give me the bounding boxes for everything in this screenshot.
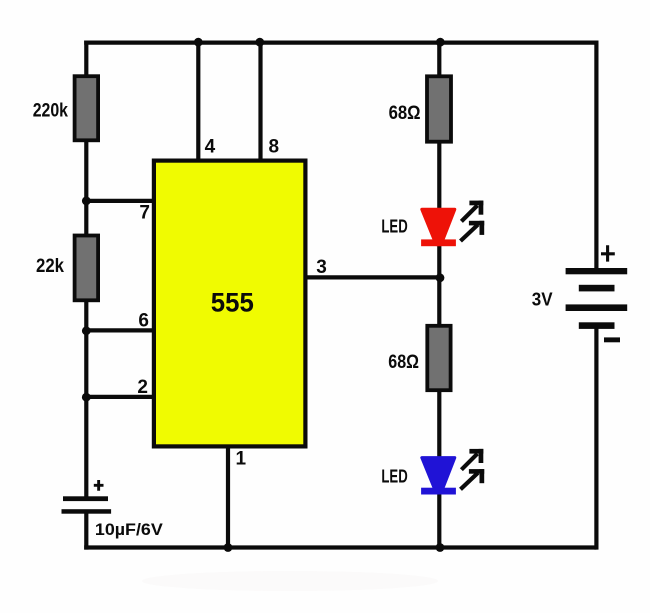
svg-text:LED: LED (381, 216, 407, 236)
wire pin2 stub (84, 395, 153, 399)
resistor R2 22k body (36, 236, 98, 301)
wire left rail upper (84, 41, 88, 77)
wire pin4 drop (196, 41, 200, 161)
LED D2 arrows (461, 449, 485, 489)
LED D2 blue (381, 458, 456, 495)
svg-text:8: 8 (269, 136, 280, 157)
node LED2-bottom junction (436, 543, 445, 552)
battery BT1 3V (532, 245, 627, 342)
svg-text:68Ω: 68Ω (389, 103, 421, 124)
wire red LED to R4 (437, 245, 441, 325)
resistor R3 68ohm top body (389, 76, 451, 141)
svg-text:555: 555 (211, 288, 254, 318)
resistor R4 68ohm bottom body (388, 326, 450, 390)
wire top rail (84, 40, 598, 44)
svg-text:LED: LED (381, 466, 407, 486)
node pin3-LED junction (436, 273, 445, 282)
capacitor C1 10uF/6V (62, 480, 164, 539)
wire bottom rail (84, 545, 596, 549)
node pin6 junction (82, 326, 91, 335)
wire right rail lower (594, 329, 598, 550)
node pin2 junction (82, 393, 91, 402)
svg-text:10µF/6V: 10µF/6V (95, 520, 164, 539)
node pin1-bottom junction (224, 543, 233, 552)
op-amp U1 555 timer body (154, 161, 306, 447)
wire pin8 drop (258, 41, 262, 161)
svg-text:4: 4 (205, 136, 216, 157)
svg-text:7: 7 (139, 203, 150, 224)
svg-text:3: 3 (316, 257, 327, 278)
svg-text:1: 1 (236, 449, 247, 470)
wire pin6 stub (84, 328, 153, 332)
wire right rail upper (594, 41, 598, 269)
wire R4 to blue LED (437, 391, 441, 458)
wire pin7 stub (84, 199, 153, 203)
node pin7 junction (82, 197, 91, 206)
wire left rail R1-R2 (84, 141, 88, 235)
wire pin1 drop (226, 447, 230, 550)
svg-text:22k: 22k (36, 256, 64, 277)
node top-pin8 (255, 38, 264, 47)
wire pin3 stub (306, 275, 439, 279)
wire LED column top (437, 41, 441, 77)
wire left rail R2-cap (84, 301, 88, 497)
watermark smudge (142, 571, 438, 591)
wire left rail cap-bottom (84, 512, 88, 550)
svg-text:220k: 220k (33, 101, 69, 122)
wire R3 to red LED (437, 143, 441, 211)
svg-text:3V: 3V (532, 289, 553, 310)
svg-text:68Ω: 68Ω (388, 352, 419, 373)
LED D1 arrows (461, 201, 485, 241)
node top-LED column (436, 38, 445, 47)
wire blue LED to bottom rail (437, 493, 441, 550)
LED D1 red (381, 209, 456, 246)
resistor R1 220k body (33, 76, 98, 140)
svg-text:2: 2 (137, 377, 148, 398)
svg-text:6: 6 (138, 311, 149, 332)
node top-pin4 (194, 38, 203, 47)
